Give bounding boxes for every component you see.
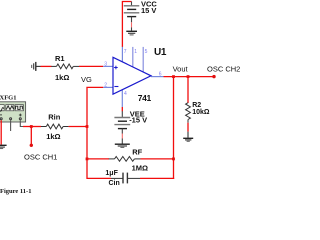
pin 2 stub [103, 86, 113, 88]
plus sign [19, 114, 22, 116]
wire Cin to output vertical (red) [140, 177, 174, 179]
ground below VEE battery [115, 144, 130, 147]
minus sign [0, 114, 2, 116]
resistor R1 [51, 64, 79, 69]
wire XFG1 plus terminal to Rin (dark stub then red) [20, 120, 24, 126]
resistor Rin [41, 124, 69, 129]
wire pin4 to VEE (red) [121, 107, 123, 111]
svg-text:15 V: 15 V [141, 6, 156, 15]
plus marker [114, 66, 118, 70]
pin 1 line [132, 47, 134, 67]
svg-text:10kΩ: 10kΩ [192, 109, 210, 116]
svg-text:Figure 11-1: Figure 11-1 [0, 188, 31, 195]
svg-text:6: 6 [159, 72, 162, 78]
wire VG to RF (red) [87, 158, 109, 160]
wire ground to R1 (red) [41, 65, 52, 67]
pin 5 line [142, 47, 144, 72]
wire output horizontal (red) [164, 76, 215, 78]
svg-text:Rin: Rin [48, 113, 61, 122]
svg-text:VG: VG [81, 75, 92, 84]
button triangle [6, 105, 14, 111]
svg-text:2: 2 [104, 83, 107, 89]
op-amp triangle body [113, 57, 151, 94]
ground at R1 left (rotated) [32, 62, 41, 71]
button sine [0, 105, 4, 111]
wire XFG1 com stub [10, 120, 12, 131]
capacitor Cin [111, 173, 140, 184]
node junction Vout/feedback [172, 75, 175, 78]
svg-text:-15 V: -15 V [129, 116, 147, 125]
svg-text:1MΩ: 1MΩ [132, 163, 148, 172]
svg-text:OSC CH2: OSC CH2 [207, 65, 240, 74]
node OSC CH2 probe dot [212, 75, 215, 78]
svg-text:1kΩ: 1kΩ [55, 73, 69, 82]
button square [15, 105, 23, 111]
wire XFG1 minus terminal to ground (red) [0, 120, 2, 144]
svg-text:1: 1 [134, 49, 137, 55]
wire output vertical (red) [173, 77, 175, 179]
node OSC CH1 probe dot [30, 144, 33, 147]
terminal + [19, 117, 22, 120]
svg-text:U1: U1 [154, 47, 167, 58]
terminal com [9, 117, 12, 120]
ground below XFG1 (clipped at left edge) [0, 145, 7, 148]
svg-text:3: 3 [104, 62, 107, 68]
svg-text:Cin: Cin [109, 180, 120, 187]
svg-text:Vout: Vout [173, 65, 189, 74]
svg-text:741: 741 [138, 93, 152, 103]
svg-text:5: 5 [145, 49, 148, 55]
svg-text:R1: R1 [55, 54, 65, 63]
minus marker [114, 86, 118, 88]
svg-text:7: 7 [124, 49, 127, 55]
wire RF to output vertical (red) [141, 158, 174, 160]
svg-text:OSC CH1: OSC CH1 [24, 153, 57, 162]
svg-text:4: 4 [124, 91, 127, 97]
wire down to OSC CH1 probe (red) [30, 127, 32, 146]
battery V2 VEE [114, 111, 130, 143]
node junction RF/vertical [172, 158, 175, 161]
node junction at XFG1/Rin [30, 125, 33, 128]
pin 7 line [121, 47, 123, 63]
node junction VG/RF [86, 158, 89, 161]
wire VG vertical (red) [87, 87, 111, 178]
pin 4 line [121, 88, 123, 107]
wire R2 to ground (red) [187, 123, 189, 132]
wire Rin to VG node (red) [69, 126, 87, 128]
svg-text:1kΩ: 1kΩ [46, 132, 60, 141]
wire junction to Rin (red) [31, 126, 41, 128]
wire VCC top (red) [122, 2, 131, 48]
pin 3 stub [103, 65, 113, 67]
ground below VCC battery [126, 31, 137, 35]
svg-text:XFG1: XFG1 [0, 95, 16, 102]
node junction R2 [187, 75, 190, 78]
node junction VG/Rin [86, 125, 89, 128]
resistor RF [109, 157, 141, 162]
terminal - [0, 117, 3, 120]
ground below R2 [183, 138, 193, 141]
svg-text:1μF: 1μF [105, 170, 118, 177]
svg-text:RF: RF [132, 147, 142, 156]
wire junction to R2 (red) [187, 77, 189, 103]
function generator XFG1 [0, 102, 26, 122]
battery V1 VCC [124, 2, 140, 31]
resistor R2 (vertical) [186, 103, 191, 123]
pin 6 stub [151, 76, 164, 78]
wire R1 to op-amp + input (red) [79, 65, 103, 67]
